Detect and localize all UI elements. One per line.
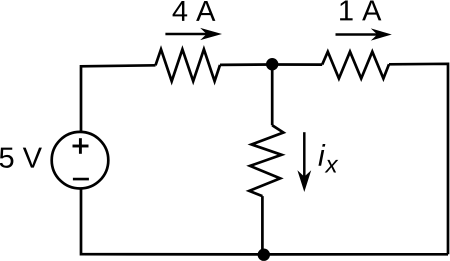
current arrow 1 A (336, 28, 392, 40)
wire: node A down to R3 (271, 64, 274, 125)
wire: bottom rail from node B to bottom-left corner and up to source (81, 188, 264, 254)
current arrow 4 A (165, 28, 222, 40)
plus sign of source (73, 138, 89, 154)
wire: R1 to node A (220, 63, 272, 66)
resistor R1 (top-left, 4 A branch) (156, 49, 221, 81)
wire: R2 to top-right corner and down right side (389, 64, 448, 255)
wire: top-left corner (source top lead up and right to R1) (81, 65, 156, 132)
voltage source V1 (5 V independent source) (52, 132, 109, 189)
minus sign of source (73, 178, 89, 181)
resistor R2 (top-right, 1 A branch) (322, 52, 389, 79)
label 4 A (173, 1, 216, 21)
node B (bottom junction dot) (258, 249, 270, 261)
label i_x (318, 144, 338, 172)
node A (top junction dot) (266, 58, 278, 70)
label 1 A (340, 0, 381, 20)
wire: bottom rail from right corner to node B (264, 253, 448, 256)
wire: R3 down to node B (261, 196, 264, 254)
resistor R3 (middle vertical branch) (249, 125, 283, 196)
wire: node A to R2 (272, 63, 322, 66)
label 5 V (0, 148, 42, 168)
current arrow i_x (297, 132, 311, 192)
